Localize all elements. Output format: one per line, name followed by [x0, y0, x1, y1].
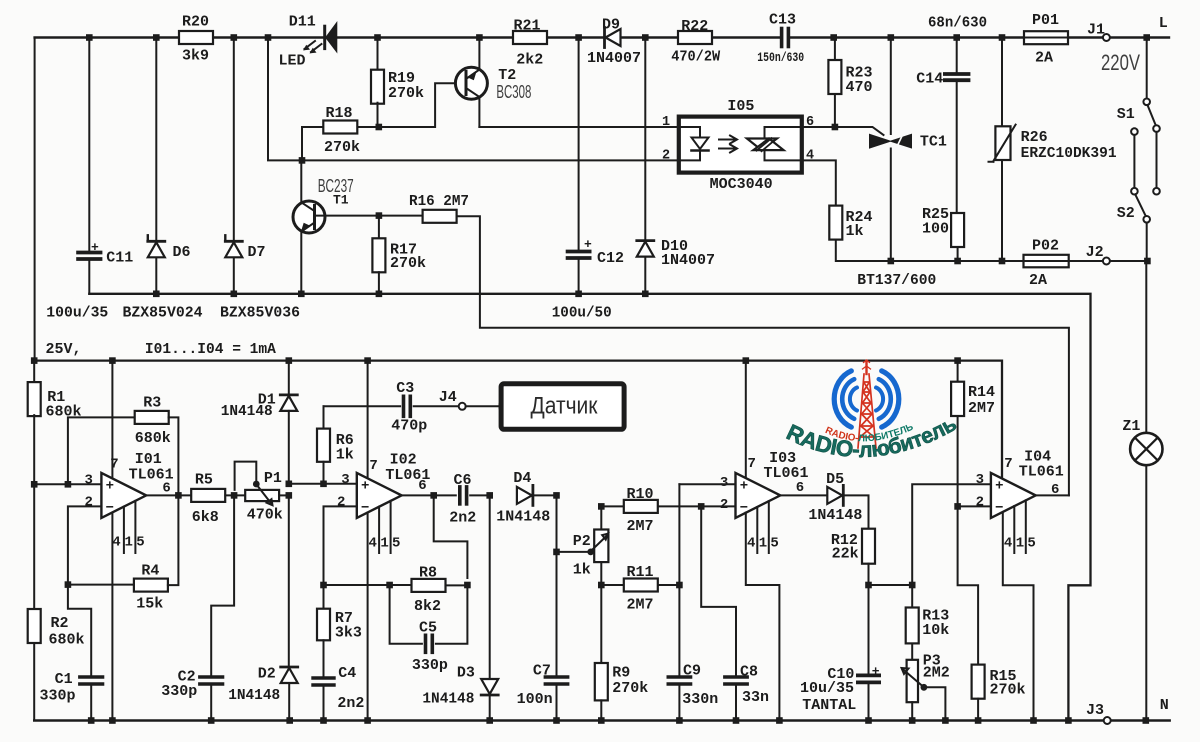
svg-text:+: + [872, 664, 880, 679]
terminal J4 [459, 403, 466, 410]
optocoupler I05 MOC3040 [679, 117, 802, 173]
svg-text:270k: 270k [324, 139, 360, 156]
capacitor C11 [88, 38, 90, 252]
svg-text:2: 2 [337, 495, 345, 511]
svg-text:+: + [995, 478, 1003, 494]
svg-text:3k9: 3k9 [182, 48, 209, 65]
svg-text:D4: D4 [513, 470, 531, 487]
diode D11 LED [323, 26, 326, 48]
wire I05 pin6 to gate [802, 127, 884, 135]
capacitor C10 [868, 585, 870, 674]
resistor R13 [911, 585, 913, 608]
svg-text:2n2: 2n2 [449, 510, 476, 527]
svg-text:J3: J3 [1086, 702, 1104, 719]
varistor R26 [1001, 38, 1003, 127]
capacitor C4 [313, 676, 334, 679]
svg-text:R22: R22 [681, 18, 708, 35]
wire I02 output [402, 494, 456, 496]
wire fb node row [869, 584, 913, 586]
svg-text:33n: 33n [742, 689, 769, 706]
svg-text:P2: P2 [573, 533, 591, 550]
resistor R15 [972, 665, 985, 699]
capacitor C3 [324, 405, 401, 407]
svg-text:2: 2 [720, 497, 728, 513]
svg-text:I01...I04 = 1mA: I01...I04 = 1mA [145, 341, 276, 358]
svg-text:15k: 15k [136, 596, 163, 613]
terminal J2 [1103, 258, 1110, 265]
svg-text:P02: P02 [1032, 238, 1059, 255]
svg-text:1N4148: 1N4148 [221, 403, 273, 420]
wire PSU common rail [89, 294, 1090, 721]
svg-text:22k: 22k [832, 546, 859, 563]
switch S2 [1131, 128, 1138, 135]
svg-text:100n: 100n [517, 691, 553, 708]
svg-text:1: 1 [125, 535, 133, 551]
diode D2 [286, 481, 293, 488]
svg-text:TANTAL: TANTAL [802, 697, 856, 714]
svg-text:R26: R26 [1021, 129, 1048, 146]
svg-text:7: 7 [748, 456, 756, 472]
svg-text:J4: J4 [439, 389, 457, 406]
node junctions on top rail [86, 34, 93, 41]
svg-text:2k2: 2k2 [516, 52, 543, 69]
svg-text:5: 5 [770, 536, 778, 552]
svg-text:2M7: 2M7 [627, 518, 654, 535]
svg-text:1k: 1k [336, 447, 354, 464]
wire I02 pin2 feedback [324, 506, 357, 585]
transistor T2 BC308 [455, 67, 487, 99]
svg-text:BZX85V024: BZX85V024 [123, 305, 203, 322]
svg-text:2n2: 2n2 [337, 695, 364, 712]
svg-text:100u/35: 100u/35 [46, 305, 108, 322]
svg-text:8k2: 8k2 [414, 598, 441, 615]
capacitor C9 [668, 675, 690, 678]
svg-text:D2: D2 [258, 666, 276, 683]
svg-text:2A: 2A [1029, 272, 1047, 289]
svg-text:5: 5 [136, 535, 144, 551]
svg-text:R16 2M7: R16 2M7 [409, 193, 469, 210]
svg-text:7: 7 [1004, 456, 1012, 472]
wire +25V rail [34, 361, 1002, 478]
wire bottom rail N [34, 719, 1104, 721]
op-amp I04 [991, 473, 1036, 518]
svg-text:25V,: 25V, [46, 341, 82, 358]
wire to I04 pin3 [912, 484, 991, 585]
resistor R9 [600, 585, 602, 663]
svg-text:2A: 2A [1035, 50, 1053, 67]
svg-text:330p: 330p [161, 683, 197, 700]
svg-text:R2: R2 [51, 615, 69, 632]
wire I02 fb loop [434, 495, 468, 578]
resistor R17 [376, 212, 383, 219]
capacitor C1 [68, 585, 91, 676]
capacitor C13 [780, 29, 784, 47]
svg-text:270k: 270k [388, 85, 424, 102]
svg-text:S1: S1 [1117, 106, 1135, 123]
wire J4 to sensor [466, 405, 501, 407]
svg-text:R8: R8 [419, 565, 437, 582]
svg-text:3: 3 [720, 475, 728, 491]
wire left vertical [34, 38, 36, 361]
svg-text:10u/35: 10u/35 [800, 680, 854, 697]
resistor R14 [957, 361, 959, 382]
resistor R10 [624, 500, 658, 513]
wire I05 pin4 to R24 [802, 160, 836, 205]
wire I01 output [146, 494, 191, 496]
svg-text:R4: R4 [141, 563, 159, 580]
resistor R3 [68, 417, 135, 484]
svg-text:6: 6 [162, 481, 170, 497]
resistor R22 [678, 31, 712, 44]
resistor R12 [843, 495, 868, 528]
P1 wiper [256, 484, 272, 505]
svg-text:330p: 330p [412, 657, 448, 674]
svg-text:J1: J1 [1087, 22, 1105, 39]
svg-text:L: L [1159, 15, 1168, 32]
svg-text:D7: D7 [248, 244, 266, 261]
svg-text:Z1: Z1 [1122, 418, 1140, 435]
svg-text:+: + [106, 478, 114, 494]
diode D3 [489, 495, 491, 679]
svg-text:N: N [1160, 697, 1169, 714]
svg-text:3: 3 [976, 472, 984, 488]
svg-text:C14: C14 [916, 71, 943, 88]
svg-text:2M7: 2M7 [968, 400, 995, 417]
svg-text:1N4148: 1N4148 [808, 507, 862, 524]
svg-text:D5: D5 [826, 471, 844, 488]
svg-text:C5: C5 [419, 620, 437, 637]
svg-text:R9: R9 [612, 665, 630, 682]
wire I01 pin3 [34, 483, 101, 485]
svg-text:D9: D9 [602, 17, 620, 34]
svg-text:68n/630: 68n/630 [928, 15, 987, 32]
svg-text:6k8: 6k8 [192, 509, 219, 526]
svg-text:TL061: TL061 [1019, 464, 1064, 481]
zener D6 [155, 38, 157, 242]
resistor R23 [834, 38, 836, 61]
svg-text:T1: T1 [333, 193, 349, 208]
wire I01 pin2 feedback [68, 506, 102, 584]
svg-text:3k3: 3k3 [335, 625, 362, 642]
svg-text:4: 4 [1004, 536, 1012, 552]
svg-text:470p: 470p [391, 418, 427, 435]
svg-text:3: 3 [341, 472, 349, 488]
terminal J3 [1104, 717, 1111, 724]
svg-text:+: + [91, 240, 99, 255]
svg-text:C11: C11 [106, 250, 133, 267]
wire triac bottom rail to J2 [836, 240, 1103, 261]
svg-text:BC308: BC308 [496, 82, 531, 102]
svg-text:1k: 1k [573, 562, 591, 579]
svg-text:1N4007: 1N4007 [587, 50, 641, 67]
svg-text:330p: 330p [40, 688, 76, 705]
svg-text:220V: 220V [1101, 50, 1140, 75]
svg-text:2M7: 2M7 [627, 597, 654, 614]
resistor R6 [323, 406, 325, 428]
svg-text:150n/630: 150n/630 [757, 51, 804, 65]
svg-text:C13: C13 [769, 12, 796, 29]
logo radio arcs [834, 371, 899, 427]
svg-text:D6: D6 [173, 244, 191, 261]
svg-text:I02: I02 [390, 452, 417, 469]
I05 internal triac [765, 127, 802, 160]
svg-text:R21: R21 [514, 18, 541, 35]
svg-text:−: − [740, 500, 748, 516]
resistor R19 [377, 38, 379, 71]
wire I05 pin1 from T2 [479, 126, 678, 128]
svg-text:R18: R18 [326, 105, 353, 122]
resistor R2 [28, 609, 41, 643]
wire I04 output [1036, 494, 1069, 496]
svg-text:R5: R5 [195, 472, 213, 489]
svg-text:1: 1 [1016, 536, 1024, 552]
svg-text:P1: P1 [264, 470, 282, 487]
diode D4 [486, 492, 493, 499]
op-amp I01 [101, 473, 146, 518]
diode D5 [842, 485, 845, 505]
resistor R18 [302, 127, 323, 160]
svg-text:C6: C6 [454, 472, 472, 489]
wire I02 pin3 row [289, 483, 357, 485]
potentiometer P3 [911, 644, 913, 660]
svg-text:1: 1 [380, 536, 388, 552]
svg-text:1k: 1k [846, 223, 864, 240]
wire T2 base [379, 83, 462, 127]
svg-text:100: 100 [922, 221, 949, 238]
svg-text:1N4148: 1N4148 [496, 509, 550, 526]
svg-text:C1: C1 [55, 671, 73, 688]
svg-text:470: 470 [846, 79, 873, 96]
potentiometer P1 [245, 490, 279, 501]
svg-text:MOC3040: MOC3040 [710, 176, 773, 193]
svg-text:S2: S2 [1117, 205, 1135, 222]
svg-text:1: 1 [759, 536, 767, 552]
svg-text:LED: LED [279, 53, 306, 70]
svg-text:5: 5 [392, 536, 400, 552]
fuse P02 [1024, 255, 1069, 267]
svg-text:1N4007: 1N4007 [661, 252, 715, 269]
svg-text:Датчик: Датчик [531, 393, 598, 420]
resistor R1 [33, 361, 35, 384]
resistor R5 [191, 489, 225, 502]
svg-text:I05: I05 [727, 98, 754, 115]
svg-text:2: 2 [662, 149, 670, 164]
svg-text:1N4148: 1N4148 [228, 687, 280, 704]
svg-text:6: 6 [418, 478, 426, 494]
diode D1 [288, 361, 290, 395]
svg-text:R10: R10 [627, 486, 654, 503]
svg-text:2: 2 [976, 495, 984, 511]
capacitor C2 [211, 495, 234, 676]
sensor box Datchik [501, 384, 624, 430]
resistor R4 [68, 584, 134, 586]
svg-text:C3: C3 [396, 380, 414, 397]
resistor R24 [829, 206, 842, 240]
svg-text:TC1: TC1 [920, 134, 947, 151]
svg-text:4: 4 [112, 535, 120, 551]
svg-text:P01: P01 [1032, 12, 1059, 29]
svg-text:BZX85V036: BZX85V036 [220, 305, 300, 322]
logo tower [858, 360, 876, 448]
capacitor C14 [956, 38, 958, 74]
svg-text:470/2W: 470/2W [671, 49, 720, 66]
svg-text:C9: C9 [683, 663, 701, 680]
svg-text:4: 4 [747, 536, 755, 552]
switch S1 [1146, 38, 1148, 99]
wire top rail L [35, 36, 781, 38]
diode D10 [644, 38, 646, 241]
svg-text:C4: C4 [338, 665, 356, 682]
resistor R8 [324, 584, 411, 586]
lamp Z1 [1145, 261, 1147, 433]
zener D7 [233, 38, 235, 242]
diode D9 [603, 28, 606, 48]
wire P2 top to R10 [601, 506, 623, 529]
svg-text:680k: 680k [49, 632, 85, 649]
capacitor C7 [553, 492, 560, 499]
capacitor C8 [701, 506, 736, 676]
wire I03 pin3 col / C9 [679, 483, 735, 485]
svg-text:+: + [361, 478, 369, 494]
svg-text:4: 4 [369, 536, 377, 552]
svg-text:330n: 330n [682, 691, 718, 708]
potentiometer P2 [553, 549, 560, 556]
wire LED-rail branch to I05 pin2 row [268, 38, 679, 161]
resistor R25 [951, 213, 964, 247]
svg-text:10k: 10k [922, 622, 949, 639]
triac TC1 [890, 38, 892, 135]
svg-text:D3: D3 [457, 665, 475, 682]
wire R16 to I04 output [457, 216, 1069, 495]
resistor R7 [323, 585, 325, 609]
svg-text:R11: R11 [627, 564, 654, 581]
svg-text:270k: 270k [390, 255, 426, 272]
I05 coupling arrows [719, 136, 737, 144]
I05 internal LED [679, 127, 700, 137]
svg-text:C12: C12 [597, 250, 624, 267]
svg-text:+: + [740, 478, 748, 494]
transistor T1 BC237 [293, 201, 325, 233]
wire I04 pin2 [958, 505, 991, 507]
fuse P01 [1024, 31, 1068, 44]
svg-text:7: 7 [369, 458, 377, 474]
capacitor C12 [578, 38, 580, 251]
op-amp I03 [736, 473, 781, 518]
resistor R11 [601, 584, 623, 586]
svg-text:R20: R20 [182, 14, 209, 31]
svg-text:BT137/600: BT137/600 [857, 272, 936, 289]
svg-text:C7: C7 [533, 663, 551, 680]
wire P2 bottom [600, 562, 602, 585]
resistor R16 [379, 215, 422, 217]
svg-text:R14: R14 [968, 384, 995, 401]
svg-text:D11: D11 [289, 14, 316, 31]
svg-text:470k: 470k [247, 507, 283, 524]
terminal J1 [1103, 34, 1110, 41]
svg-text:2M2: 2M2 [923, 665, 950, 682]
svg-text:680k: 680k [135, 430, 171, 447]
svg-text:270k: 270k [612, 680, 648, 697]
svg-text:270k: 270k [990, 682, 1026, 699]
resistor R21 [513, 31, 547, 44]
svg-text:5: 5 [1027, 536, 1035, 552]
svg-text:J2: J2 [1086, 244, 1104, 261]
svg-text:7: 7 [110, 457, 118, 473]
svg-text:2: 2 [85, 495, 93, 511]
svg-text:6: 6 [796, 480, 804, 496]
svg-text:C8: C8 [740, 664, 758, 681]
svg-text:3: 3 [85, 473, 93, 489]
svg-text:1N4148: 1N4148 [422, 691, 474, 708]
svg-text:+: + [584, 237, 592, 252]
capacitor C5 [390, 585, 422, 644]
svg-text:I01: I01 [135, 451, 162, 468]
svg-text:100u/50: 100u/50 [552, 305, 612, 322]
svg-text:R3: R3 [143, 395, 161, 412]
resistor R20 [179, 31, 213, 44]
wire I03 output [780, 494, 826, 496]
svg-text:6: 6 [1051, 482, 1059, 498]
svg-text:ERZC10DK391: ERZC10DK391 [1021, 145, 1117, 162]
op-amp I02 [357, 473, 402, 518]
capacitor C6 [458, 487, 462, 504]
